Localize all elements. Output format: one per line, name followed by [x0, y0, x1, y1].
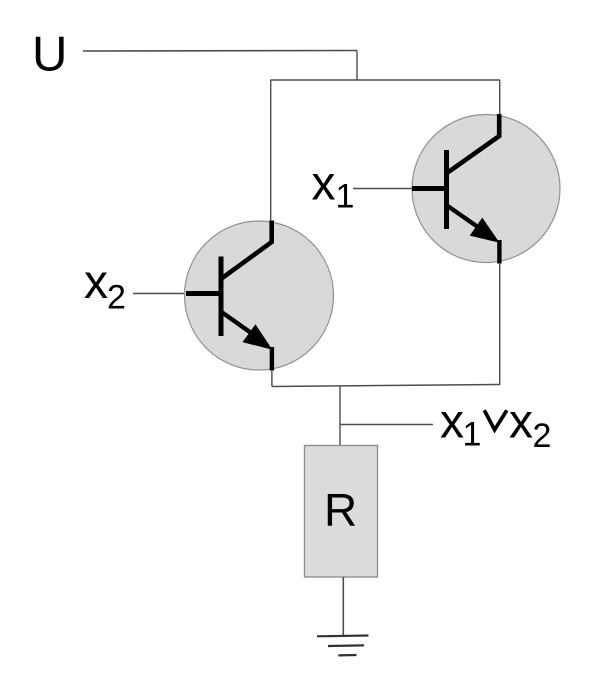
svg-text:1: 1 [463, 416, 482, 454]
ground bar 1 [317, 634, 369, 637]
Q1 base bar [444, 150, 449, 229]
Q2 body circle [185, 221, 334, 370]
wire x1 base lead [353, 188, 414, 190]
svg-text:1: 1 [336, 178, 355, 216]
transistor Q2 (left, input x2) [185, 221, 334, 371]
svg-text:x: x [440, 396, 464, 449]
Q1 emitter stroke [447, 206, 485, 233]
wire x2 base lead [133, 293, 187, 295]
ground [317, 636, 369, 656]
ground bar 3 [338, 654, 356, 657]
wire resistor to ground [342, 577, 344, 637]
wire right emitter drop [499, 263, 501, 385]
wire junction to resistor [339, 386, 341, 447]
output label OR vee [484, 410, 507, 430]
Q2 emitter stub [270, 347, 274, 371]
wire top rail [270, 79, 500, 81]
Q2 base lead (thick) [186, 291, 221, 296]
svg-text:U: U [32, 28, 67, 82]
wire bottom rail [272, 385, 500, 387]
svg-text:2: 2 [107, 279, 126, 317]
wire riser to left transistor collector [270, 80, 272, 222]
resistor R [305, 446, 378, 578]
resistor R body [305, 446, 378, 578]
Q2 emitter arrowhead [243, 324, 273, 350]
wire from U label to corner [83, 50, 357, 53]
Q1 collector stroke [447, 114, 499, 173]
svg-text:x: x [312, 158, 336, 211]
Q1 emitter arrowhead [470, 218, 500, 243]
wire vertical drop from U rail [356, 51, 358, 81]
svg-text:2: 2 [533, 417, 552, 455]
Q1 emitter stub [497, 240, 501, 264]
Q2 collector stroke [222, 221, 272, 279]
transistor Q1 (right, input x1) [412, 114, 560, 264]
svg-text:R: R [324, 484, 357, 536]
wire left emitter drop [271, 370, 273, 387]
Q1 body circle [412, 115, 560, 263]
svg-text:x: x [84, 256, 108, 309]
svg-text:x: x [509, 396, 533, 449]
Q2 base bar [219, 257, 224, 337]
wire output tap [340, 424, 433, 426]
Q2 emitter stroke [222, 312, 260, 339]
label output x1 v x2 [440, 396, 551, 455]
wire riser to right transistor collector [499, 80, 501, 116]
Q1 base lead (thick) [412, 186, 447, 191]
ground bar 2 [328, 644, 364, 647]
